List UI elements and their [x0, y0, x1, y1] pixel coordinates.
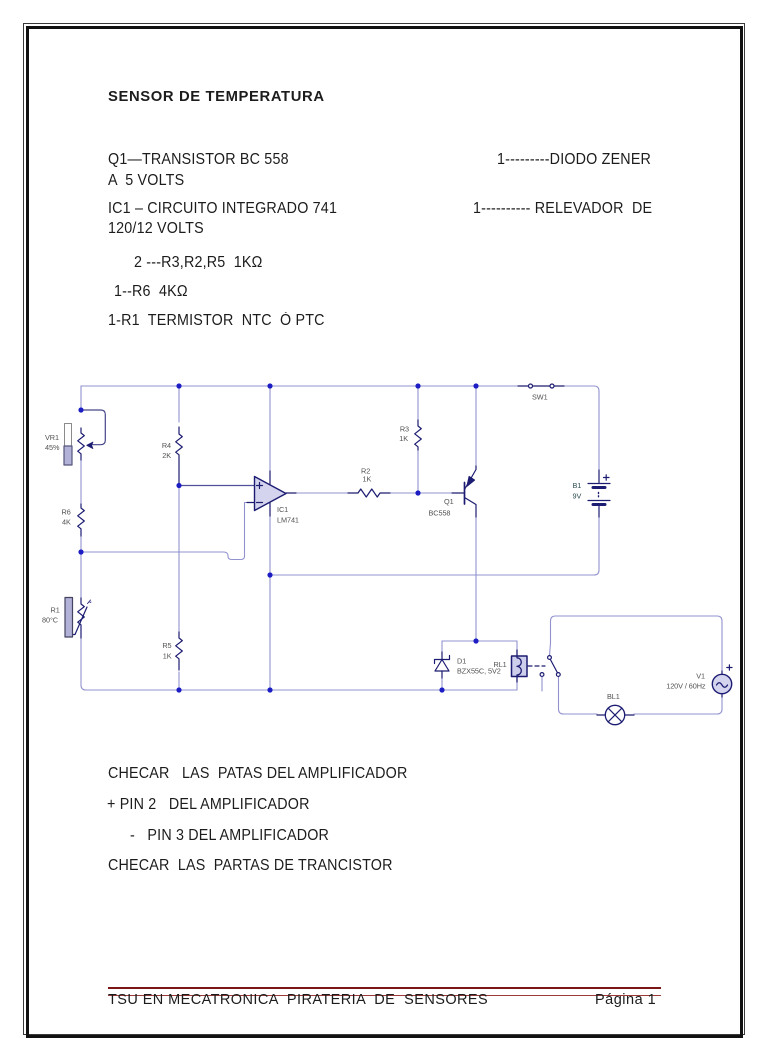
zener diode D1 lead — [441, 652, 443, 659]
zener diode D1 triangle — [435, 660, 449, 672]
AC source V1 — [712, 674, 731, 693]
wiper loop VR1 — [81, 410, 105, 445]
svg-text:Q1: Q1 — [444, 497, 454, 506]
relay NO contact — [556, 673, 560, 677]
lamp BL1 cross — [608, 708, 622, 722]
wire node to R1 — [80, 552, 82, 598]
svg-text:80°C: 80°C — [42, 616, 58, 625]
wire VR1 to R6 — [80, 460, 82, 504]
wire R1 to bottom rail — [81, 638, 442, 690]
svg-text:120V / 60Hz: 120V / 60Hz — [666, 682, 706, 691]
AC source V1 plus — [727, 665, 732, 670]
wire coil lead bottom — [516, 682, 518, 690]
node VR1 wiper — [78, 407, 83, 412]
lamp BL1 — [605, 705, 624, 724]
AC source V1 leads — [721, 671, 723, 697]
svg-text:IC1: IC1 — [277, 505, 288, 514]
thermistor strike — [71, 607, 88, 635]
wire opamp power pin up — [269, 386, 271, 471]
svg-text:R3: R3 — [400, 425, 409, 434]
battery B1 — [598, 470, 600, 483]
slider handle — [64, 446, 72, 465]
title — [108, 89, 325, 105]
svg-text:V1: V1 — [696, 672, 705, 681]
wire lamp loop left — [559, 677, 598, 714]
wire lamp loop top — [556, 616, 723, 671]
resistor R6 — [78, 504, 85, 536]
footer text — [108, 992, 488, 1008]
transistor Q1 emitter — [465, 466, 477, 490]
wire minus input run with jog — [81, 503, 247, 560]
wire opamp pin4 down — [269, 516, 271, 690]
transistor Q1 base lead — [452, 492, 465, 494]
node collector D1 — [473, 638, 478, 643]
transistor Q1 collector — [465, 498, 477, 518]
node R5 bottom — [176, 687, 181, 692]
svg-text:R5: R5 — [162, 641, 171, 650]
svg-text:SW1: SW1 — [532, 393, 548, 402]
op-amp U1 input stubs — [247, 502, 254, 504]
node opamp vee rail — [267, 572, 272, 577]
wire NC stub — [541, 677, 543, 691]
op-amp minus sign — [257, 502, 263, 504]
text block top — [108, 151, 289, 169]
wire output run — [295, 492, 452, 494]
svg-text:1K: 1K — [163, 652, 172, 661]
wire emitter up — [475, 386, 477, 466]
wire bottom rail right — [442, 689, 517, 691]
svg-text:VR1: VR1 — [45, 433, 59, 442]
wiper arrow — [87, 442, 93, 448]
footer rules — [108, 987, 661, 990]
switch SW1 contact circles — [529, 384, 533, 388]
slider track — [65, 424, 72, 447]
svg-text:R4: R4 — [162, 441, 171, 450]
svg-text:D1: D1 — [457, 657, 466, 666]
svg-text:2K: 2K — [162, 451, 171, 460]
node R3 bottom — [415, 490, 420, 495]
relay contact pivot — [548, 656, 552, 660]
node opamp top — [267, 383, 272, 388]
AC source V1 tilde — [717, 683, 728, 688]
svg-text:4K: 4K — [62, 518, 71, 527]
wire D1 lead bottom — [441, 678, 443, 690]
wire relay common up — [550, 616, 556, 656]
wire R4 branch — [178, 386, 180, 422]
slider VR1 widget — [64, 424, 72, 466]
wire R4 node to R5 — [178, 485, 180, 690]
node R4 top — [176, 383, 181, 388]
transistor Q1 base bar — [464, 483, 466, 505]
wire D1 rail top — [442, 640, 517, 642]
wire y575 rail — [270, 517, 599, 575]
wire coil lead top — [516, 641, 518, 650]
resistor R5 — [176, 632, 183, 670]
thermistor R1 body — [65, 598, 73, 638]
svg-text:LM741: LM741 — [277, 516, 299, 525]
transistor Q1 emitter arrow — [467, 476, 475, 486]
svg-text:B1: B1 — [573, 481, 582, 490]
thermistor t mark — [88, 600, 92, 604]
resistor R4 — [176, 427, 183, 485]
svg-text:1K: 1K — [363, 475, 372, 484]
op-amp output stub — [286, 492, 296, 494]
wire R3 branch — [417, 386, 419, 493]
svg-text:BC558: BC558 — [429, 509, 451, 518]
relay coil RL1 — [517, 650, 521, 682]
svg-text:45%: 45% — [45, 443, 60, 452]
zener diode D1 lead bottom — [441, 671, 443, 678]
node emitter rail — [473, 383, 478, 388]
svg-text:R6: R6 — [62, 508, 71, 517]
node opamp ground — [267, 687, 272, 692]
wire collector down — [475, 517, 477, 641]
wire lamp loop right down — [634, 697, 722, 714]
node minus net left — [78, 549, 83, 554]
relay coil RL1 box — [512, 656, 528, 677]
lamp BL1 leads — [597, 714, 634, 716]
relay dashed link — [528, 665, 545, 667]
node R3 top — [415, 383, 420, 388]
wire left branch vertical top — [80, 386, 82, 410]
resistor R3 — [415, 420, 422, 450]
text block bottom — [108, 765, 407, 783]
svg-text:R1: R1 — [51, 606, 60, 615]
op-amp U1 triangle — [255, 477, 287, 511]
thermistor R1 — [78, 598, 85, 638]
potentiometer VR1 — [78, 428, 85, 460]
node D1 bottom — [439, 687, 444, 692]
op-amp power pins — [269, 471, 271, 516]
battery plus sign — [604, 475, 610, 480]
svg-text:1K: 1K — [399, 434, 408, 443]
node plus input — [176, 483, 181, 488]
svg-text:RL1: RL1 — [494, 660, 507, 669]
svg-text:9V: 9V — [573, 492, 582, 501]
wire R6 to node — [80, 536, 82, 552]
zener diode D1 cathode bar — [435, 656, 450, 664]
wire D1 lead top — [441, 641, 443, 652]
wire plus input — [179, 485, 254, 487]
relay NC contact — [540, 673, 544, 677]
relay contact lever — [550, 659, 557, 672]
resistor R2 — [348, 489, 390, 497]
op-amp plus sign — [257, 483, 263, 489]
wire top rail — [81, 386, 599, 470]
svg-text:BL1: BL1 — [607, 692, 620, 701]
switch SW1 — [518, 385, 564, 387]
